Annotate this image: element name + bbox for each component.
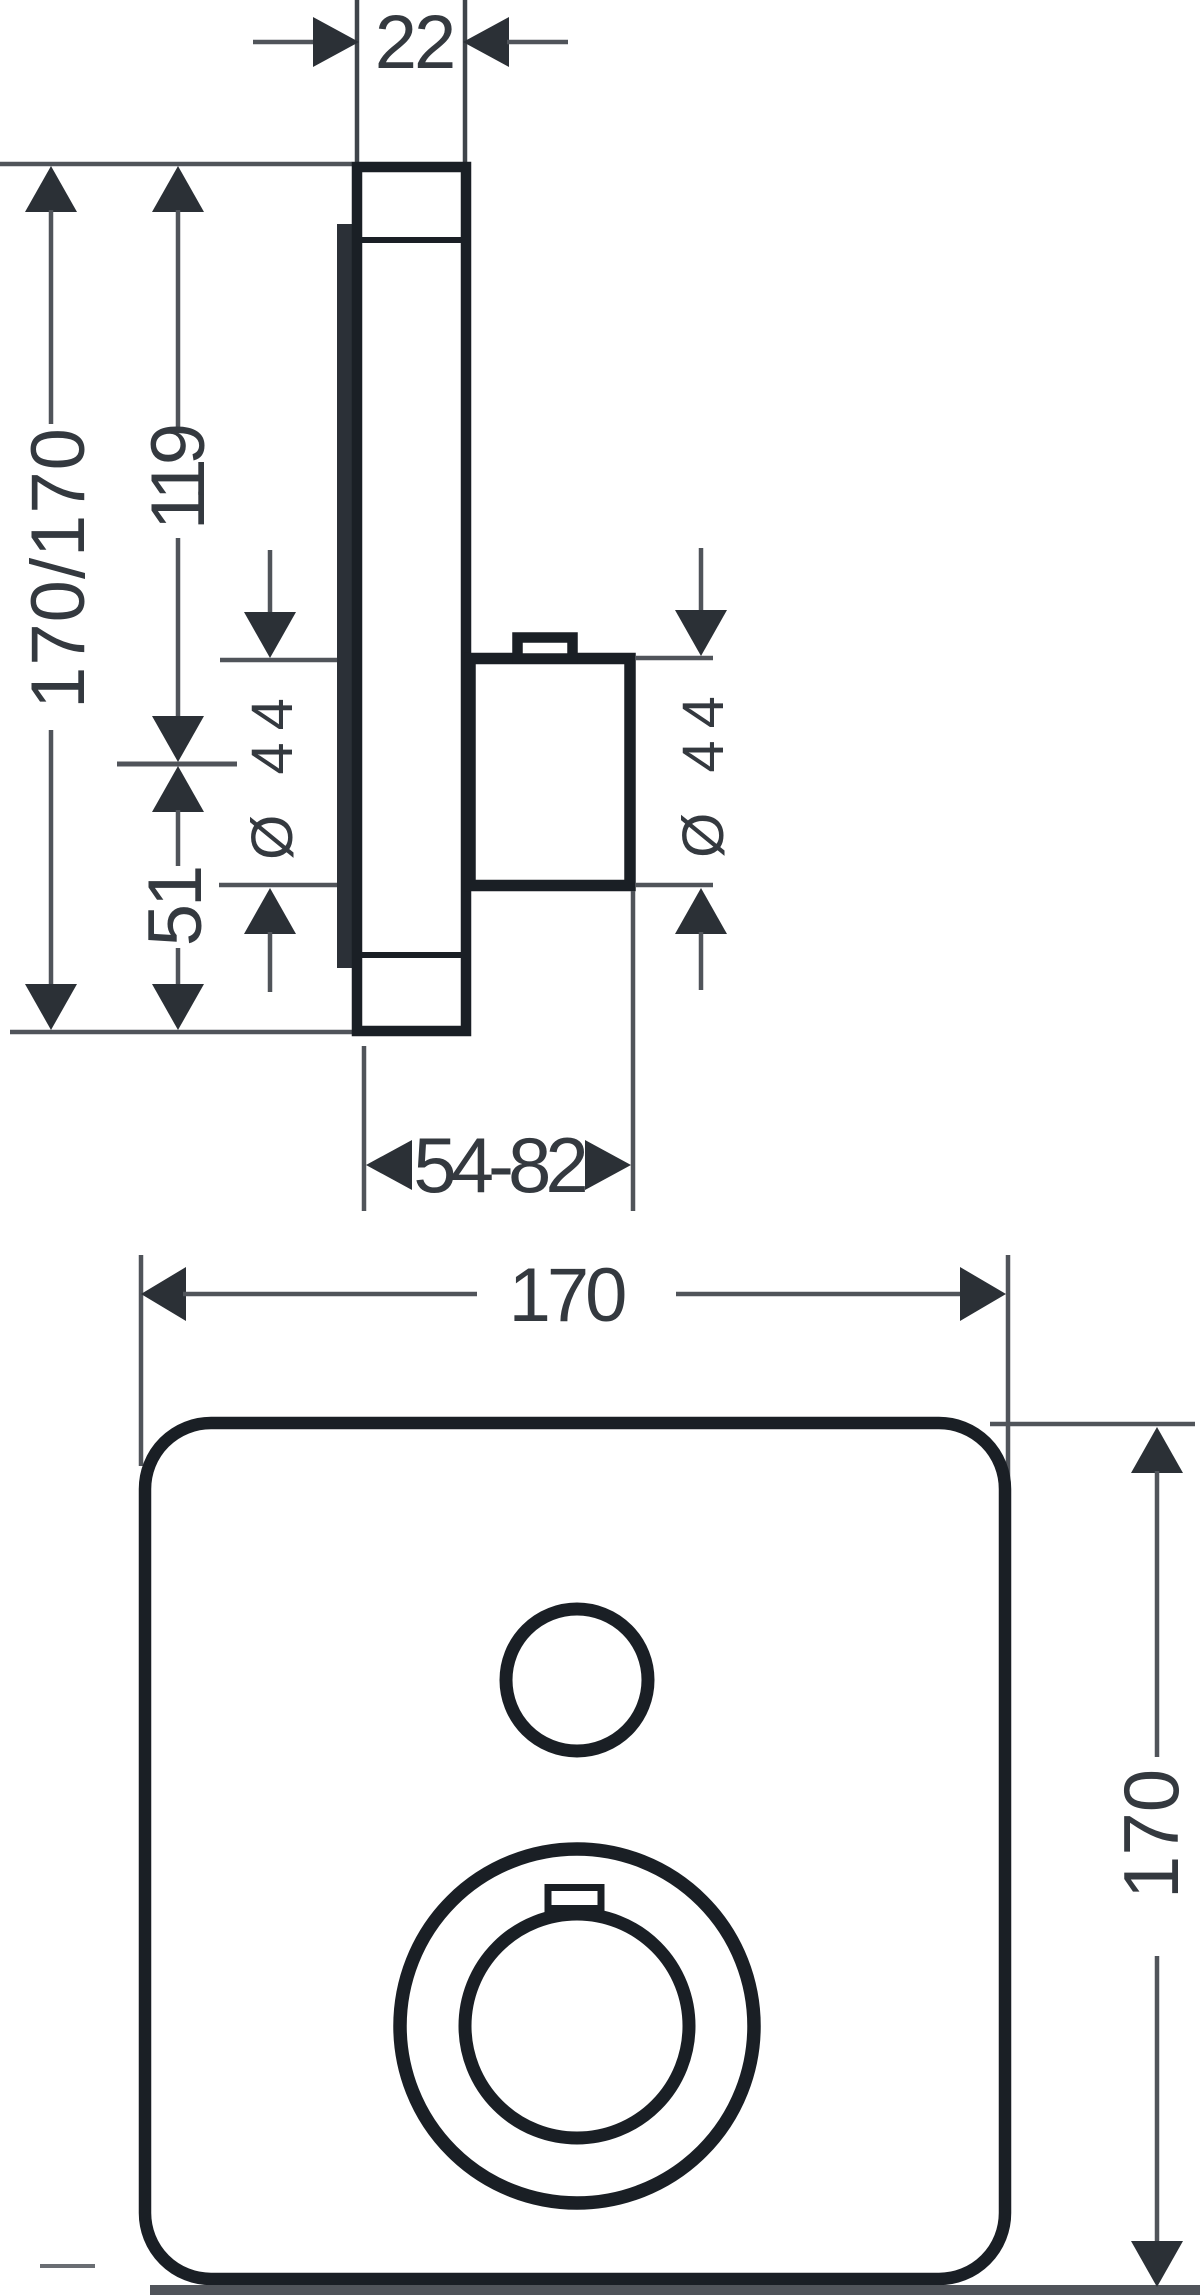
dim 170/170 top arrowhead bbox=[25, 166, 77, 212]
extension line plate bottom bbox=[10, 1030, 353, 1035]
dim 170-right bottom arrowhead bbox=[1131, 2241, 1183, 2287]
plate inner line top bbox=[353, 237, 470, 243]
knob grip tab front view bbox=[548, 1888, 601, 1909]
170-right ext bottom bbox=[150, 2285, 1200, 2295]
plate inner line bottom bbox=[353, 952, 470, 958]
dim 170-top left arrowhead bbox=[141, 1267, 186, 1321]
dim 170-top right arrowhead bbox=[960, 1267, 1006, 1321]
dim 51 bottom arrowhead bbox=[152, 984, 204, 1030]
dim 22 left leader bbox=[253, 40, 315, 45]
dim 119 lower line bbox=[176, 538, 181, 718]
dim Ø44-left lower line bbox=[268, 932, 273, 992]
faceplate front view bbox=[145, 1423, 1005, 2279]
dim 170-top right line bbox=[676, 1292, 961, 1297]
thermostat knob outer bbox=[400, 1849, 754, 2203]
dim 170-right top arrowhead bbox=[1131, 1427, 1183, 1473]
escutcheon plate outline bbox=[357, 167, 466, 1031]
svg-text:22: 22 bbox=[375, 0, 454, 85]
dim 119 top arrowhead bbox=[152, 166, 204, 212]
dim 170-right upper line bbox=[1155, 1471, 1160, 1757]
dim 170/170 bottom arrowhead bbox=[25, 984, 77, 1030]
extension line plate top bbox=[0, 162, 352, 167]
dim 170-top left line bbox=[183, 1292, 477, 1297]
svg-text:54-82: 54-82 bbox=[413, 1121, 585, 1209]
dim 119 upper line bbox=[176, 210, 181, 431]
svg-text:Ø 44: Ø 44 bbox=[240, 686, 305, 860]
handle grip tab side view bbox=[518, 638, 573, 659]
dim 170/170 upper line bbox=[49, 210, 54, 424]
dim 170/170 lower line bbox=[49, 730, 54, 986]
Ø44-left ext top bbox=[220, 658, 341, 663]
dim 22 right arrowhead bbox=[463, 17, 509, 67]
svg-text:170/170: 170/170 bbox=[16, 427, 101, 709]
54-82 ext left bbox=[362, 1046, 367, 1211]
170-right ext top bbox=[990, 1422, 1195, 1427]
extension line 22-right bbox=[463, 0, 468, 164]
svg-text:51: 51 bbox=[133, 868, 218, 947]
dim 22 right leader bbox=[507, 40, 568, 45]
dim 51 upper line bbox=[176, 810, 181, 866]
Ø44-left ext bottom bbox=[219, 883, 341, 888]
dim 119 bottom arrowhead (bowtie top) bbox=[152, 716, 204, 762]
handle centre tick bbox=[117, 762, 237, 767]
Ø44-right ext bottom bbox=[635, 883, 713, 888]
170-right ext bottom left stub bbox=[40, 2264, 95, 2268]
dim Ø44-left upper line bbox=[268, 550, 273, 613]
dim 54-82 right arrowhead bbox=[585, 1140, 631, 1190]
dim Ø44-right bottom arrowhead bbox=[675, 888, 727, 934]
dim 51 top arrowhead (bowtie bottom) bbox=[152, 766, 204, 812]
dim 51 lower line bbox=[176, 948, 181, 986]
dim Ø44-right upper line bbox=[699, 548, 704, 612]
dim 170-right lower line bbox=[1155, 1956, 1160, 2243]
thermostat knob inner bbox=[465, 1914, 689, 2138]
wall sleeve bar bbox=[337, 224, 354, 968]
dim Ø44-right lower line bbox=[699, 932, 704, 990]
Ø44-right ext top bbox=[635, 656, 713, 661]
dim 54-82 left arrowhead bbox=[366, 1140, 412, 1190]
dim Ø44-right top arrowhead bbox=[675, 610, 727, 656]
54-82 ext right bbox=[631, 891, 636, 1211]
dim Ø44-left bottom arrowhead bbox=[244, 888, 296, 934]
170-top ext right bbox=[1006, 1255, 1011, 1480]
dim Ø44-left top arrowhead bbox=[244, 612, 296, 658]
svg-text:170: 170 bbox=[509, 1253, 626, 1338]
svg-text:119: 119 bbox=[136, 426, 221, 530]
select button front view bbox=[506, 1609, 648, 1751]
extension line 22-left bbox=[355, 0, 360, 164]
170-top ext left bbox=[139, 1255, 144, 1466]
svg-text:170: 170 bbox=[1107, 1769, 1195, 1899]
dim 22 left arrowhead bbox=[313, 17, 359, 67]
thermostat handle side view bbox=[470, 659, 630, 886]
svg-text:Ø 44: Ø 44 bbox=[671, 684, 736, 858]
